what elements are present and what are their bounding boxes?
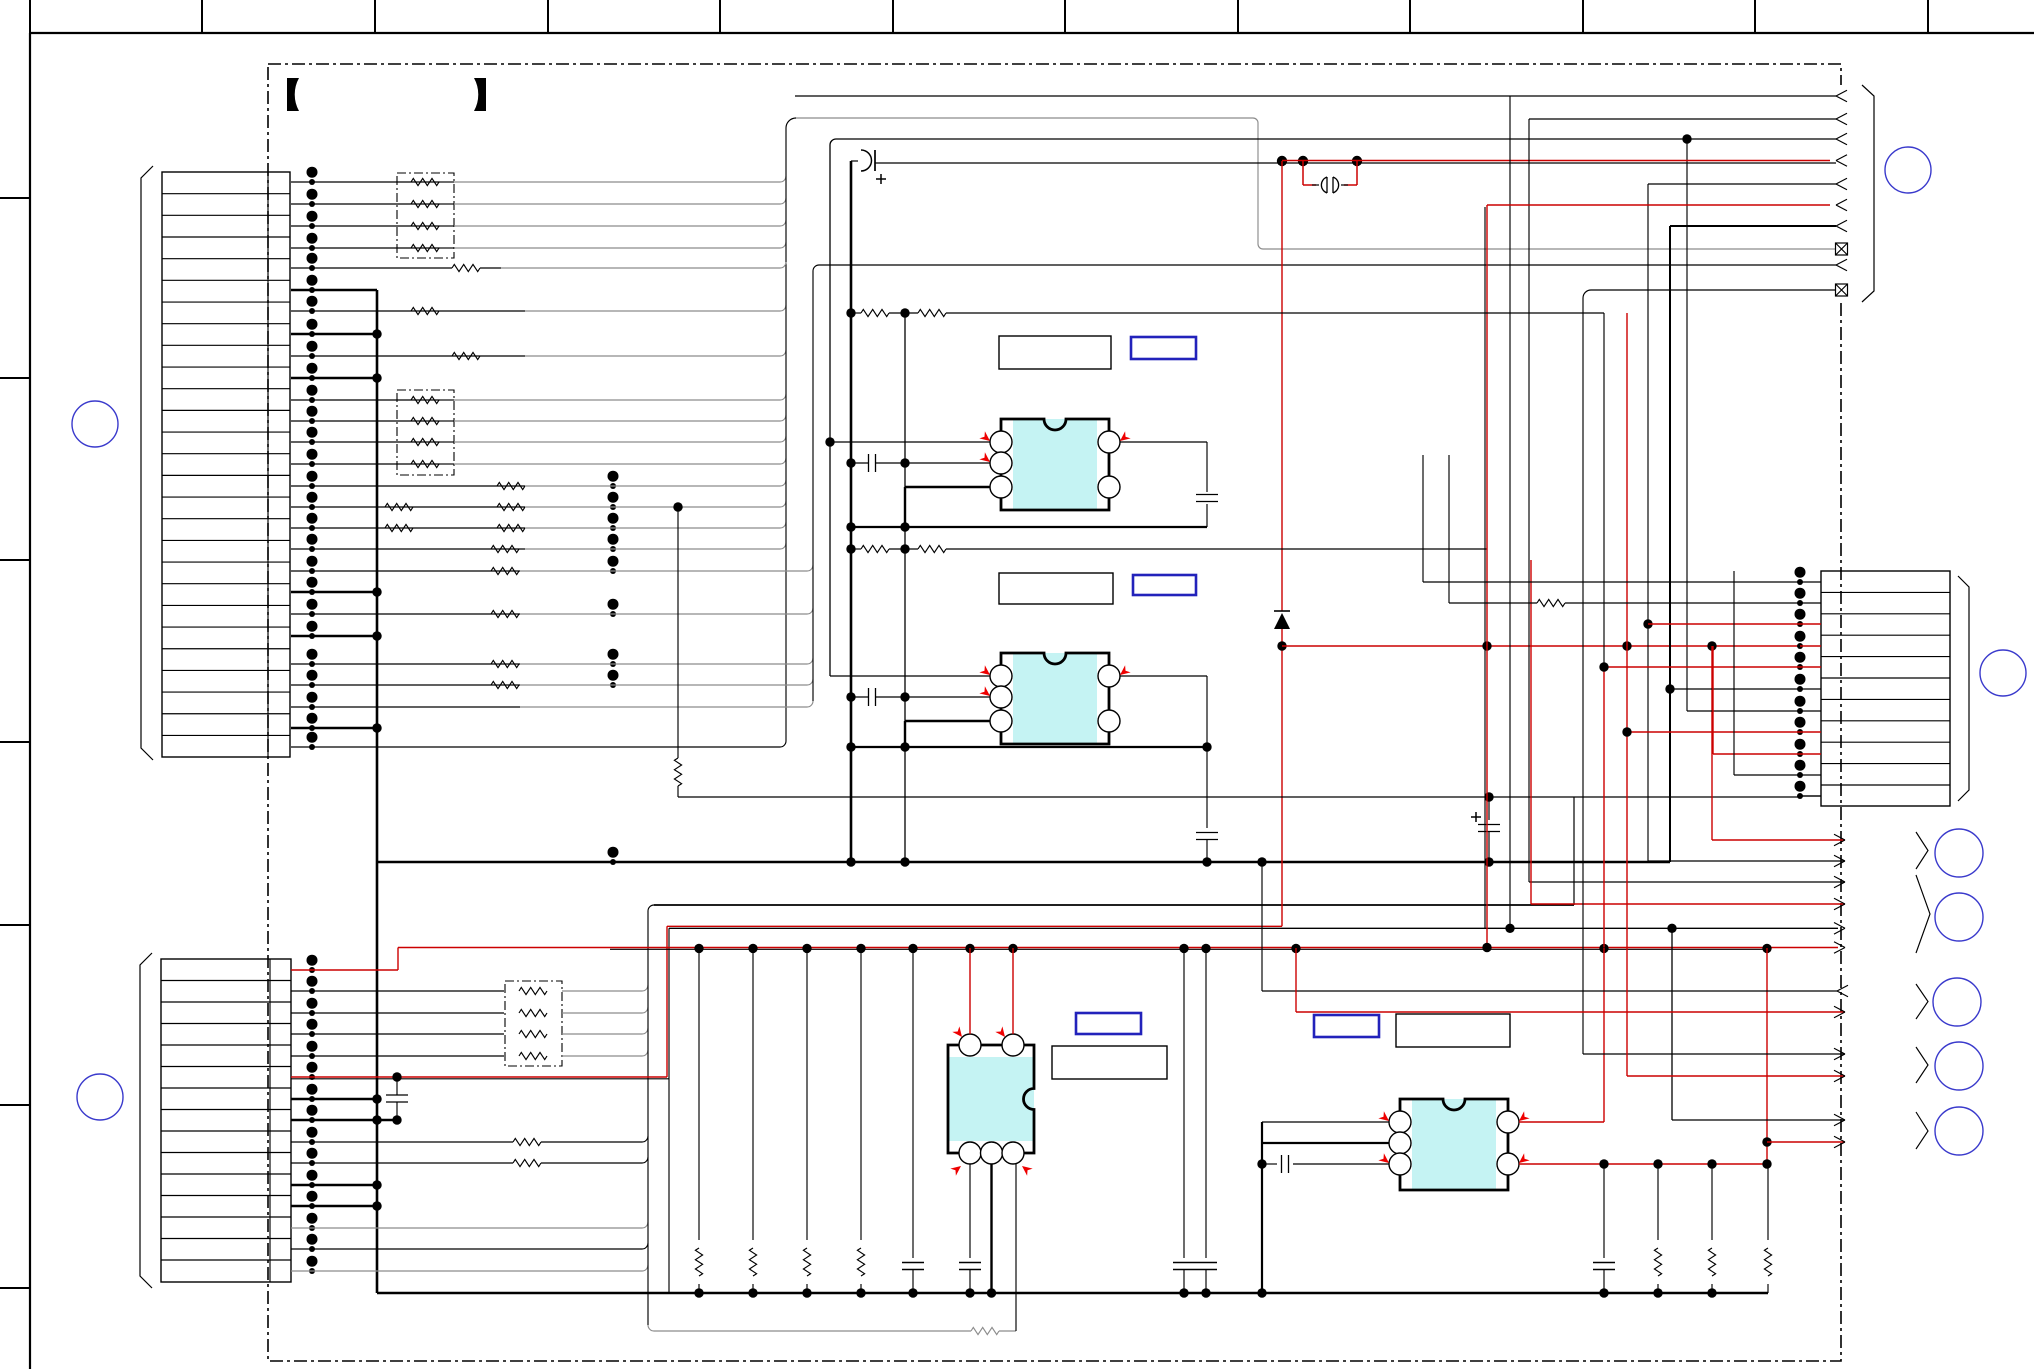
wire from collector bus B top y265 to right arrow xyxy=(819,264,1836,266)
connector CN3 body xyxy=(1821,571,1950,806)
resistor R5 (wire y268) xyxy=(452,264,480,271)
bus vertical x851 thick xyxy=(850,161,853,862)
board outline (dash-dot) xyxy=(268,64,1841,1361)
wire CN1 rows to collector bus A (x786) xyxy=(291,181,440,183)
diode D1 xyxy=(1274,610,1290,612)
capacitor C2 to U1 pin L2 xyxy=(851,462,868,464)
connector CN1 ref circle xyxy=(72,401,118,447)
resistor RA3-2 xyxy=(519,1009,547,1016)
capacitor C7 x1206 to ground xyxy=(1205,948,1207,1258)
connector CN1 body xyxy=(162,172,290,757)
capacitor C6 x1184 to ground xyxy=(1183,948,1185,1258)
collector bus B vertical x813 xyxy=(812,271,814,701)
resistor R7 (wire y311) xyxy=(411,307,439,314)
top-right ref circle xyxy=(1885,147,1931,193)
thick loop line y747 xyxy=(851,746,1207,748)
IC U3 body xyxy=(948,1045,1034,1153)
resistor RA2-3 xyxy=(411,438,439,445)
feed from T1670 dot to pin6 xyxy=(1670,688,1800,690)
resistor RA2-2 xyxy=(411,417,439,424)
vertical x678 with resistor R23 xyxy=(677,507,679,758)
black partner vertical x1485 xyxy=(1484,207,1486,928)
gray feedback wire y1331 with resistor R33 xyxy=(654,1330,971,1332)
resistor R16a (wire y507) xyxy=(385,503,413,510)
red resonator X1 circuit xyxy=(1298,156,1308,166)
U3 bottom pin3 mark xyxy=(1019,1162,1032,1175)
feed T1687 to pin7 xyxy=(1687,710,1800,712)
resistor R15 (wire y486) xyxy=(497,482,525,489)
IC U3 pin bot-1 xyxy=(959,1142,981,1164)
red wire U4 pin R1 to bus B xyxy=(1519,1121,1604,1123)
collector x830 line xyxy=(829,145,831,676)
xbox terminal y249 xyxy=(1836,243,1848,255)
IC U1 pin L1 xyxy=(990,431,1012,453)
capacitor C9 to U4 pin L3 xyxy=(1262,1163,1277,1165)
red arrow y1142 stub xyxy=(1762,1137,1771,1146)
red trunk T1604 from pin5 xyxy=(1604,666,1800,668)
resistor R31 (wire y1142) xyxy=(513,1138,541,1145)
wire y96 line to trunk x1510 xyxy=(795,95,1510,97)
feed red stub from T1648 dot to pin3 xyxy=(1648,623,1800,625)
CN1 thick links to bus xyxy=(291,289,377,292)
connector CN3 ref circle xyxy=(1980,650,2026,696)
bus vertical x377 xyxy=(376,290,379,1293)
feed T1423 to CN3 pin1 xyxy=(1422,455,1424,582)
IC U4 pin L1 xyxy=(1389,1111,1411,1133)
IC U1 pin L3 xyxy=(990,476,1012,498)
CN1 pin junction dots xyxy=(307,167,318,178)
wire CN2 rows to collector bus C (x648) xyxy=(291,990,504,992)
resistor R34 x1658 xyxy=(1657,1164,1659,1240)
bottom-right group brackets xyxy=(1916,832,1928,869)
red stubs bus B to U3 top pins xyxy=(969,948,971,1034)
red trunk T1487: arrow y205 down to red bus B xyxy=(1487,204,1830,206)
feed y797 to pin11 (already drawn) xyxy=(1800,795,1821,797)
long black line y928.3 from x669 to right arrow xyxy=(669,927,1838,929)
IC U2 pin L2 xyxy=(990,686,1012,708)
resistor RA2-1 xyxy=(411,396,439,403)
red vertical x1282 with diode D1 xyxy=(1281,161,1283,611)
resistor RA1-4 xyxy=(411,244,439,251)
IC U4 pin L2 xyxy=(1389,1132,1411,1154)
feed to CN3 pin2 with resistor R40 xyxy=(1448,455,1450,603)
red arrow y840 from dot on red y646 xyxy=(1711,646,1713,840)
capacitor C5 x913 to ground xyxy=(912,948,914,1258)
trunk T1510: wire y96 down to long line y928.3 xyxy=(1510,95,1836,97)
resistor R19 (wire y571) xyxy=(491,567,519,574)
thick wire to U4 pin L2 xyxy=(1262,1142,1389,1144)
wire y990 to left-arrow xyxy=(1262,990,1837,992)
collector bus C vertical x648 xyxy=(647,911,649,1325)
red wire CN2 row1 y970 to bus B xyxy=(291,969,398,971)
IC U3 pin top-2 xyxy=(1002,1034,1024,1056)
polarized capacitor C13 x1489 xyxy=(1484,792,1493,801)
trunk T1670: arrow y226, joins mid ground bus xyxy=(1670,225,1836,227)
IC U1 pin L2 xyxy=(990,452,1012,474)
thick wire to U1 pin L3 xyxy=(905,486,990,488)
CN3 pin stub wires xyxy=(1800,581,1821,583)
IC U4 pin R2 xyxy=(1497,1153,1519,1175)
wire CN1 rows to collector bus B (x813) xyxy=(291,570,520,572)
black partner line y1078.6 to CN2 xyxy=(291,1078,669,1080)
resistor RA1-1 xyxy=(411,178,439,185)
long wire y905 to x1574 xyxy=(654,904,1574,906)
connector CN1 bracket xyxy=(141,166,153,760)
thick wire to U2 pin L3 xyxy=(905,720,990,722)
resistor array RA2 box xyxy=(397,390,454,475)
IC U3 pin bot-3 xyxy=(1002,1142,1024,1164)
resistor pair line y549 xyxy=(851,548,861,550)
bottom-right ref circles xyxy=(1935,829,1983,877)
resistor R9 (wire y356) xyxy=(452,352,480,359)
red bus A y926.3 xyxy=(667,925,1282,927)
U4 labels xyxy=(1314,1015,1379,1037)
feed T1734 to pin10 xyxy=(1733,571,1735,775)
resistor R17b (wire y528) xyxy=(497,524,525,531)
IC U3 pin top-1 xyxy=(959,1034,981,1056)
bus vertical x905 xyxy=(904,313,906,862)
resistor R18 (wire y549) xyxy=(491,545,519,552)
IC U4 pin L3 xyxy=(1389,1153,1411,1175)
IC U2 body xyxy=(1001,653,1109,744)
vertical x1262 from mid bus to y991 xyxy=(1261,862,1263,991)
IC U2 pin R1 xyxy=(1098,665,1120,687)
board title brackets xyxy=(287,78,299,111)
resistor R20 (wire y614) xyxy=(491,610,519,617)
U1 pin R1 loop via C3 xyxy=(1120,441,1207,443)
polarized capacitor C1 top xyxy=(861,150,872,171)
red arrow y1012 from bus B xyxy=(1295,948,1297,1012)
connector CN2 ref circle xyxy=(77,1074,123,1120)
resistor RA3-4 xyxy=(519,1052,547,1059)
resistor R16b (wire y507) xyxy=(497,503,525,510)
wire w5 row y268 into collector bus A xyxy=(291,267,452,269)
capacitor C4 at x397 xyxy=(396,1077,398,1095)
thick loop line y527 xyxy=(851,526,1207,528)
wire CN2 row y1142 to x1262 xyxy=(291,1141,513,1143)
red trunk T1713 from red y646 to pin9 xyxy=(1712,646,1714,754)
connector CN3 bracket xyxy=(1958,576,1969,801)
resistor array RA3 box xyxy=(505,981,562,1066)
red trunk T1531 to arrow y905 xyxy=(1530,560,1532,904)
U1 labels xyxy=(999,336,1111,369)
trunk T1529: arrow y119 down to arrow y882 xyxy=(1529,118,1836,120)
IC U1 body xyxy=(1001,419,1109,510)
trunk T1672 from y928 to arrow y1120 xyxy=(1671,928,1673,1120)
trunk T1583: xbox y290 down to arrow y1054 xyxy=(1583,290,1835,990)
feed line y316 with resistors, drops at x1604 xyxy=(851,312,861,314)
resistor R36 x1768 xyxy=(1767,1164,1769,1240)
CN2 pin junction dots xyxy=(307,955,318,966)
red stub T1627 to pin8 xyxy=(1627,731,1800,733)
capacitor C10 x1604 to ground xyxy=(1603,1164,1605,1258)
IC U2 pin R2 xyxy=(1098,710,1120,732)
capacitor C11 to U2 pin L2 xyxy=(851,696,868,698)
red wire y160 to top-right arrow xyxy=(1282,160,1830,162)
collector bus A vertical x786 xyxy=(785,128,787,741)
red trunk T1627 to arrow y1076 xyxy=(1626,313,1628,1076)
red branch x667 to CN2 row y1077 xyxy=(666,926,668,1077)
wire to U4 pin L1 xyxy=(1262,1121,1389,1123)
ground bus y1293 xyxy=(377,1292,1768,1295)
page frame left ruler xyxy=(29,33,31,1369)
vertical x1262 to ground xyxy=(1261,1122,1263,1293)
IC U4 body xyxy=(1400,1099,1508,1190)
resistor RA2-4 xyxy=(411,460,439,467)
resistor RA3-3 xyxy=(519,1030,547,1037)
junction dots x613 xyxy=(608,471,619,482)
resistor R21 (wire y664) xyxy=(491,660,519,667)
trunk T1583b continues to arrow y1054 xyxy=(1582,990,1584,1054)
connector CN2 bracket xyxy=(140,953,152,1288)
resistor R22 (wire y685) xyxy=(491,681,519,688)
U3 bottom pin1 to capacitor C8 xyxy=(969,1164,971,1258)
IC U4 pin R1 xyxy=(1497,1111,1519,1133)
resistor R17a (wire y528) xyxy=(385,524,413,531)
wire to U1 pin L1 xyxy=(830,441,990,443)
U3 bottom pin2 thick to ground xyxy=(990,1164,992,1293)
black partner bus y949.3 xyxy=(610,948,1767,950)
page frame top ruler xyxy=(30,32,2034,34)
IC U3 pin bot-2 xyxy=(981,1142,1003,1164)
IC U1 pin R2 xyxy=(1098,476,1120,498)
wire CN2 row y1163 to collector xyxy=(291,1162,513,1164)
IC U1 pin R1 xyxy=(1098,431,1120,453)
IC U2 pin L3 xyxy=(990,710,1012,732)
red wire U4 pin R2 east xyxy=(1519,1163,1767,1165)
mid ground bus y862 xyxy=(377,861,1670,864)
long line y797 to right connector xyxy=(678,796,1800,798)
IC U2 pin L1 xyxy=(990,665,1012,687)
red wire y646 to right connector pin xyxy=(1282,645,1800,647)
wire to U2 pin L1 xyxy=(830,675,990,677)
red bus B y947.5 xyxy=(398,947,1838,949)
top-right connector bracket xyxy=(1862,85,1874,302)
resistor array RA1 box xyxy=(397,173,454,258)
U2 pin R1 loop via C12 xyxy=(1120,675,1207,677)
resistor RA1-2 xyxy=(411,200,439,207)
CN3 pin dots xyxy=(1795,567,1806,578)
CN2 thick links to bus x377 xyxy=(291,1098,377,1101)
resistor RA1-3 xyxy=(411,222,439,229)
resistor R35 x1712 xyxy=(1711,1164,1713,1240)
pulldown resistors to ground from bus B xyxy=(698,948,700,1240)
red vertical x1767 bus B to y1164 xyxy=(1766,948,1768,1164)
U3 labels xyxy=(1076,1013,1141,1034)
connector CN2 body xyxy=(161,959,291,1282)
feed T1687 from y139 down to CN3 pin7 xyxy=(1686,139,1688,711)
resistor RA3-1 xyxy=(519,987,547,994)
capacitor C4 lower lead xyxy=(396,1102,398,1120)
U1 left label boxes xyxy=(999,573,1113,604)
trunk T1648: arrow y184 down to arrow y861 xyxy=(1648,183,1836,185)
resistor R32 (wire y1163) xyxy=(513,1159,541,1166)
gray line y118 from collector with s-curve to xbox y249 xyxy=(796,118,1835,249)
top wire y139 to far right arrow xyxy=(836,138,1836,140)
